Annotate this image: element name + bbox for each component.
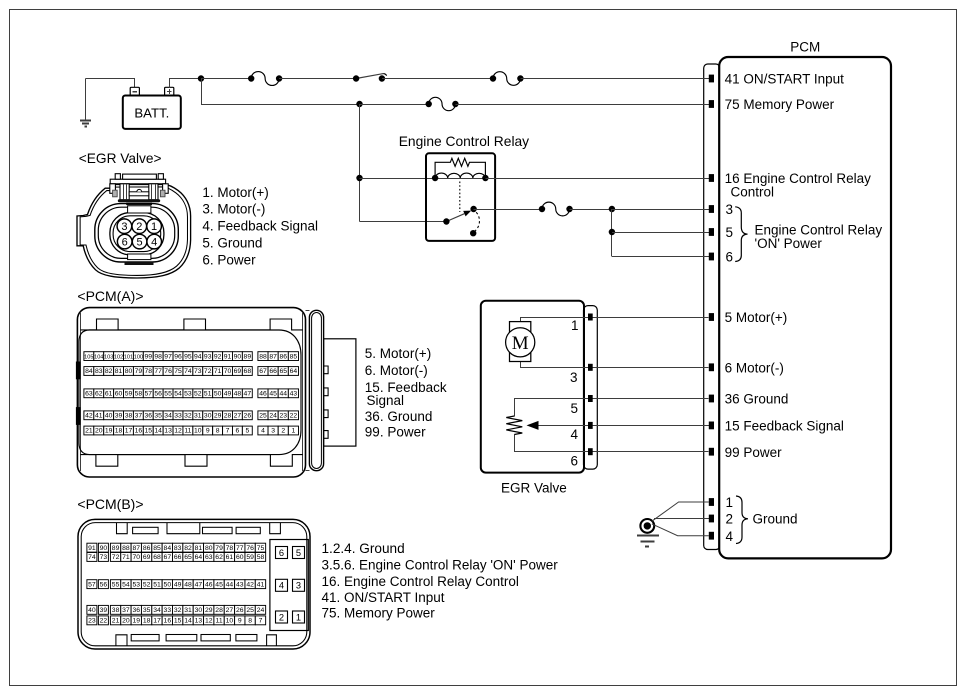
svg-text:EGR Valve: EGR Valve	[501, 481, 567, 496]
brace Engine Control Relay ON Power	[735, 207, 747, 262]
svg-text:105: 105	[84, 354, 93, 360]
svg-text:51: 51	[204, 391, 212, 398]
svg-text:83: 83	[174, 545, 182, 552]
wire C3 to PCM pin 75	[455, 104, 708, 106]
PCM(A) pin grid row 1	[84, 352, 94, 361]
svg-text:88: 88	[259, 353, 267, 360]
svg-text:47: 47	[244, 391, 252, 398]
svg-text:75. Memory Power: 75. Memory Power	[322, 606, 436, 621]
PCM connector strip	[704, 64, 720, 550]
chassis ground	[640, 519, 654, 533]
svg-text:94: 94	[194, 353, 202, 360]
svg-text:99 Power: 99 Power	[725, 445, 783, 460]
svg-text:5. Ground: 5. Ground	[202, 236, 262, 251]
svg-text:5: 5	[245, 428, 249, 435]
svg-text:70: 70	[224, 368, 232, 375]
node A junction	[198, 75, 204, 81]
svg-text:67: 67	[259, 368, 267, 375]
svg-text:63: 63	[205, 554, 213, 561]
wire sensor top EGR pin 5 to PCM pin 36	[515, 399, 709, 417]
svg-text:65: 65	[279, 368, 287, 375]
svg-text:5: 5	[296, 548, 301, 558]
svg-text:61: 61	[226, 554, 234, 561]
svg-text:3: 3	[296, 581, 301, 591]
PCM(A) right ear	[309, 310, 323, 470]
svg-text:36. Ground: 36. Ground	[365, 409, 433, 424]
wire ground to PCM pin 2	[654, 518, 709, 520]
svg-text:53: 53	[184, 391, 192, 398]
svg-text:42: 42	[85, 413, 93, 420]
svg-text:25: 25	[259, 413, 267, 420]
relay switch arm	[446, 214, 464, 222]
svg-text:3: 3	[726, 202, 734, 217]
svg-text:<EGR Valve>: <EGR Valve>	[79, 151, 162, 166]
PCM(B) pin grid row 5	[87, 616, 97, 625]
svg-text:9: 9	[238, 618, 242, 625]
svg-text:41 ON/START Input: 41 ON/START Input	[725, 72, 845, 87]
tower base dark band	[118, 199, 160, 202]
svg-text:24: 24	[257, 607, 265, 614]
svg-text:<PCM(A)>: <PCM(A)>	[77, 288, 143, 304]
wire ground to PCM pin 4	[652, 524, 709, 536]
battery plus terminal	[165, 87, 174, 95]
svg-text:28: 28	[224, 413, 232, 420]
svg-text:13: 13	[195, 618, 203, 625]
svg-text:55: 55	[164, 391, 172, 398]
svg-text:102: 102	[114, 354, 123, 360]
svg-text:86: 86	[143, 545, 151, 552]
svg-text:6: 6	[236, 428, 240, 435]
svg-text:79: 79	[215, 545, 223, 552]
svg-text:60: 60	[115, 391, 123, 398]
PCM(A) rear housing rectangle	[324, 339, 356, 446]
svg-text:63: 63	[85, 391, 93, 398]
PCM(A) terminal cavity D-shell	[79, 330, 301, 455]
svg-text:14: 14	[154, 428, 162, 435]
relay box Engine Control Relay	[426, 153, 495, 241]
svg-text:11: 11	[184, 428, 191, 435]
svg-text:8: 8	[248, 618, 252, 625]
svg-text:37: 37	[135, 413, 143, 420]
svg-text:98: 98	[154, 353, 162, 360]
PCM(B) outer shell	[78, 519, 310, 649]
svg-text:66: 66	[174, 554, 182, 561]
svg-text:1: 1	[151, 221, 157, 233]
svg-text:10: 10	[194, 428, 202, 435]
svg-text:92: 92	[214, 353, 222, 360]
svg-text:6. Power: 6. Power	[202, 253, 256, 268]
EGR connector lock tower	[110, 179, 165, 184]
EGR connector pins	[588, 314, 593, 321]
svg-text:23: 23	[279, 413, 287, 420]
motor M	[510, 322, 531, 362]
svg-text:Ground: Ground	[753, 512, 798, 527]
svg-text:90: 90	[100, 545, 108, 552]
in-line connector C3	[429, 97, 456, 110]
relay rest contact	[470, 230, 476, 236]
svg-text:35: 35	[143, 607, 151, 614]
svg-text:39: 39	[100, 607, 108, 614]
svg-text:25: 25	[246, 607, 254, 614]
svg-text:99: 99	[144, 353, 152, 360]
svg-text:47: 47	[195, 581, 203, 588]
svg-text:74: 74	[88, 554, 96, 561]
wire C2 to PCM pin 41	[520, 78, 708, 80]
svg-text:56: 56	[100, 581, 108, 588]
brace Ground pins 1 2 4	[736, 496, 748, 544]
svg-text:18: 18	[143, 618, 151, 625]
PCM(A) pin grid row 4	[84, 411, 94, 420]
svg-text:73: 73	[194, 368, 202, 375]
wire ground to PCM pin 1	[652, 502, 709, 521]
svg-text:91: 91	[224, 353, 232, 360]
svg-text:34: 34	[153, 607, 161, 614]
svg-text:4. Feedback Signal: 4. Feedback Signal	[202, 218, 318, 233]
svg-text:6: 6	[571, 454, 579, 469]
svg-text:80: 80	[125, 368, 133, 375]
PCM(B) pin grid row 3	[87, 580, 97, 589]
svg-text:2: 2	[281, 428, 285, 435]
svg-text:PCM: PCM	[790, 39, 820, 54]
svg-text:29: 29	[214, 413, 222, 420]
svg-text:52: 52	[194, 391, 202, 398]
svg-text:20: 20	[95, 428, 103, 435]
svg-text:6: 6	[726, 250, 734, 265]
svg-text:97: 97	[164, 353, 172, 360]
svg-text:11: 11	[216, 618, 223, 625]
svg-text:96: 96	[174, 353, 182, 360]
EGR valve connector strip	[584, 306, 598, 470]
svg-text:22: 22	[100, 618, 108, 625]
svg-text:38: 38	[125, 413, 133, 420]
tower center latch	[129, 192, 149, 196]
svg-text:1. Motor(+): 1. Motor(+)	[202, 185, 268, 200]
svg-text:81: 81	[115, 368, 123, 375]
svg-text:77: 77	[154, 368, 162, 375]
ignition switch	[356, 74, 383, 79]
svg-text:31: 31	[184, 607, 192, 614]
PCM(B) pin grid row 1	[87, 543, 97, 552]
svg-text:23: 23	[88, 618, 96, 625]
svg-text:73: 73	[100, 554, 108, 561]
svg-text:'ON' Power: 'ON' Power	[755, 236, 823, 251]
svg-text:46: 46	[259, 391, 267, 398]
svg-text:43: 43	[236, 581, 244, 588]
svg-text:79: 79	[135, 368, 143, 375]
wire motor(-) EGR pin 3 to PCM pin 6	[521, 362, 709, 368]
PCM(B) power terminal 2	[276, 611, 288, 623]
svg-text:75 Memory Power: 75 Memory Power	[725, 97, 835, 112]
svg-text:48: 48	[184, 581, 192, 588]
svg-text:36: 36	[132, 607, 140, 614]
svg-text:87: 87	[132, 545, 140, 552]
svg-text:75: 75	[174, 368, 182, 375]
svg-text:52: 52	[143, 581, 151, 588]
svg-text:84: 84	[164, 545, 172, 552]
PCM box	[719, 57, 891, 558]
wire to PCM pin 6	[612, 256, 709, 258]
svg-text:2: 2	[279, 612, 284, 622]
svg-text:29: 29	[205, 607, 213, 614]
EGR face terminal housing inner	[113, 216, 161, 252]
svg-text:Signal: Signal	[367, 393, 405, 408]
svg-text:58: 58	[257, 554, 265, 561]
svg-text:31: 31	[194, 413, 202, 420]
svg-text:45: 45	[215, 581, 223, 588]
svg-text:45: 45	[269, 391, 277, 398]
wire to relay common contact	[360, 221, 447, 223]
svg-text:104: 104	[94, 354, 103, 360]
PCM(B) power terminal 1	[293, 611, 305, 623]
svg-text:16: 16	[164, 618, 172, 625]
wire node D to PCM pin 3	[612, 209, 709, 211]
svg-text:76: 76	[246, 545, 254, 552]
svg-text:84: 84	[85, 368, 93, 375]
svg-text:62: 62	[95, 391, 103, 398]
svg-text:Control: Control	[731, 185, 775, 200]
relay coil resistor	[435, 158, 485, 178]
svg-text:71: 71	[214, 368, 222, 375]
svg-text:7: 7	[226, 428, 230, 435]
svg-text:61: 61	[105, 391, 113, 398]
PCM(B) pin grid row 2	[87, 553, 97, 562]
svg-text:5: 5	[726, 225, 734, 240]
svg-text:57: 57	[88, 581, 96, 588]
svg-text:82: 82	[105, 368, 113, 375]
svg-text:76: 76	[164, 368, 172, 375]
svg-text:M: M	[512, 333, 529, 354]
svg-text:64: 64	[290, 368, 298, 375]
svg-text:85: 85	[153, 545, 161, 552]
svg-text:32: 32	[184, 413, 192, 420]
svg-text:99. Power: 99. Power	[365, 425, 426, 440]
svg-text:Engine Control Relay: Engine Control Relay	[755, 222, 883, 237]
svg-text:10: 10	[226, 618, 234, 625]
svg-text:34: 34	[164, 413, 172, 420]
svg-text:12: 12	[205, 618, 213, 625]
EGR connector inner body line	[80, 187, 187, 276]
PCM(B) bottom tabs	[116, 635, 127, 646]
svg-text:4: 4	[151, 237, 157, 249]
svg-text:4: 4	[261, 428, 265, 435]
svg-text:69: 69	[234, 368, 242, 375]
PCM(A) pin grid row 2	[84, 367, 94, 376]
svg-text:5 Motor(+): 5 Motor(+)	[725, 310, 788, 325]
svg-text:82: 82	[184, 545, 192, 552]
svg-text:70: 70	[132, 554, 140, 561]
PCM(B) inner shell	[81, 523, 307, 646]
svg-text:30: 30	[204, 413, 212, 420]
svg-text:18: 18	[115, 428, 123, 435]
svg-text:69: 69	[143, 554, 151, 561]
svg-text:50: 50	[164, 581, 172, 588]
svg-text:59: 59	[125, 391, 133, 398]
svg-text:4: 4	[571, 427, 579, 442]
svg-text:15: 15	[144, 428, 152, 435]
svg-text:87: 87	[269, 353, 277, 360]
svg-text:65: 65	[184, 554, 192, 561]
PCM(A) outer shell	[77, 308, 305, 477]
EGR valve box	[481, 301, 584, 473]
svg-text:6: 6	[279, 548, 284, 558]
svg-text:60: 60	[236, 554, 244, 561]
battery BATT.	[123, 96, 181, 129]
svg-text:50: 50	[214, 391, 222, 398]
svg-text:49: 49	[224, 391, 232, 398]
svg-text:<PCM(B)>: <PCM(B)>	[77, 496, 143, 512]
svg-text:57: 57	[144, 391, 152, 398]
wiper arrow wire EGR pin 4 to PCM pin 15	[538, 425, 709, 427]
svg-text:7: 7	[259, 618, 263, 625]
svg-text:27: 27	[234, 413, 242, 420]
svg-text:103: 103	[104, 354, 113, 360]
PCM(B) power terminal 5	[293, 547, 305, 559]
svg-text:8: 8	[216, 428, 220, 435]
PCM(B) pin grid row 4	[87, 605, 97, 614]
svg-text:53: 53	[132, 581, 140, 588]
svg-text:49: 49	[174, 581, 182, 588]
wire node C to relay coil	[360, 178, 436, 180]
svg-text:59: 59	[246, 554, 254, 561]
svg-text:89: 89	[112, 545, 120, 552]
svg-text:5: 5	[571, 401, 579, 416]
wire C4 to node D	[570, 209, 612, 211]
ground (battery negative)	[85, 79, 87, 120]
svg-text:2: 2	[726, 512, 734, 527]
svg-text:17: 17	[125, 428, 133, 435]
PCM(B) top tabs	[117, 523, 128, 534]
svg-text:17: 17	[153, 618, 161, 625]
svg-text:5. Motor(+): 5. Motor(+)	[365, 346, 431, 361]
svg-text:40: 40	[88, 607, 96, 614]
svg-text:62: 62	[215, 554, 223, 561]
svg-text:16: 16	[135, 428, 143, 435]
svg-text:3. Motor(-): 3. Motor(-)	[202, 202, 265, 217]
svg-text:5: 5	[137, 237, 143, 249]
PCM(B) power terminal 4	[276, 579, 288, 591]
wire ground to battery minus terminal	[86, 79, 135, 88]
svg-text:39: 39	[115, 413, 123, 420]
EGR face top key tab	[128, 206, 151, 213]
svg-text:6. Motor(-): 6. Motor(-)	[365, 363, 428, 378]
svg-text:36 Ground: 36 Ground	[725, 392, 789, 407]
wire C1 to ignition switch	[279, 78, 356, 80]
PCM(B) power terminal 6	[276, 547, 288, 559]
svg-text:32: 32	[174, 607, 182, 614]
relay NO contact	[470, 206, 476, 212]
relay actuation dotted link	[459, 182, 461, 213]
in-line connector C1	[251, 72, 279, 86]
EGR face seal ring outer	[95, 204, 179, 262]
svg-text:68: 68	[153, 554, 161, 561]
svg-text:43: 43	[290, 391, 298, 398]
svg-text:72: 72	[204, 368, 212, 375]
svg-text:86: 86	[279, 353, 287, 360]
svg-text:15 Feedback Signal: 15 Feedback Signal	[725, 419, 844, 434]
svg-text:91: 91	[88, 545, 96, 552]
svg-text:13: 13	[164, 428, 172, 435]
PCM(A) bottom rail with tabs	[80, 455, 303, 467]
svg-text:46: 46	[205, 581, 213, 588]
svg-text:1: 1	[296, 612, 301, 622]
feedback position sensor resistor	[506, 416, 522, 435]
svg-text:2: 2	[136, 221, 142, 233]
relay coil	[435, 178, 485, 180]
svg-text:28: 28	[215, 607, 223, 614]
svg-text:21: 21	[85, 428, 93, 435]
EGR face bottom tabs	[128, 254, 151, 260]
svg-text:9: 9	[206, 428, 210, 435]
svg-text:66: 66	[269, 368, 277, 375]
svg-text:72: 72	[112, 554, 120, 561]
EGR face terminal housing outer	[110, 213, 164, 255]
svg-text:33: 33	[174, 413, 182, 420]
svg-text:3: 3	[271, 428, 275, 435]
svg-text:81: 81	[195, 545, 203, 552]
svg-text:83: 83	[95, 368, 103, 375]
wire node A to connector C1	[201, 78, 251, 80]
svg-text:101: 101	[124, 354, 133, 360]
in-line connector C2	[493, 72, 520, 86]
svg-text:26: 26	[244, 413, 252, 420]
PCM(A) top rail with tabs	[80, 319, 303, 330]
svg-text:19: 19	[132, 618, 140, 625]
svg-text:71: 71	[122, 554, 130, 561]
svg-text:24: 24	[269, 413, 277, 420]
svg-text:1: 1	[571, 318, 579, 333]
wire relay coil to PCM pin 16	[485, 178, 708, 180]
svg-text:64: 64	[195, 554, 203, 561]
svg-text:36: 36	[144, 413, 152, 420]
PCM(A) pin grid row 5	[84, 426, 94, 435]
svg-text:6: 6	[122, 237, 128, 249]
svg-text:19: 19	[105, 428, 113, 435]
tower side tabs	[113, 190, 118, 197]
svg-text:55: 55	[112, 581, 120, 588]
svg-text:54: 54	[174, 391, 182, 398]
svg-text:74: 74	[184, 368, 192, 375]
wire node E to PCM pin 5	[612, 232, 709, 234]
tower posts	[120, 184, 129, 200]
svg-text:75: 75	[257, 545, 265, 552]
wire node A down and right to node B	[202, 79, 360, 105]
svg-text:4: 4	[279, 581, 284, 591]
svg-text:26: 26	[236, 607, 244, 614]
svg-text:30: 30	[195, 607, 203, 614]
svg-text:89: 89	[244, 353, 252, 360]
svg-text:Engine Control Relay: Engine Control Relay	[399, 134, 529, 149]
svg-text:16. Engine Control Relay Contr: 16. Engine Control Relay Control	[322, 574, 519, 589]
in-line connector C4	[542, 202, 570, 216]
svg-text:88: 88	[122, 545, 130, 552]
svg-text:41. ON/START Input: 41. ON/START Input	[322, 590, 445, 605]
PCM(B) power terminal panel	[270, 540, 308, 631]
svg-text:12: 12	[174, 428, 182, 435]
svg-text:3: 3	[121, 221, 127, 233]
node B junction	[356, 101, 362, 107]
node C junction	[356, 175, 362, 181]
svg-text:42: 42	[246, 581, 254, 588]
svg-text:78: 78	[226, 545, 234, 552]
svg-text:40: 40	[105, 413, 113, 420]
svg-text:21: 21	[112, 618, 120, 625]
svg-text:93: 93	[204, 353, 212, 360]
svg-text:38: 38	[112, 607, 120, 614]
wire motor(+) EGR pin 1 to PCM pin 5	[521, 318, 709, 322]
svg-text:3: 3	[570, 370, 578, 385]
svg-text:77: 77	[236, 545, 244, 552]
svg-text:80: 80	[205, 545, 213, 552]
